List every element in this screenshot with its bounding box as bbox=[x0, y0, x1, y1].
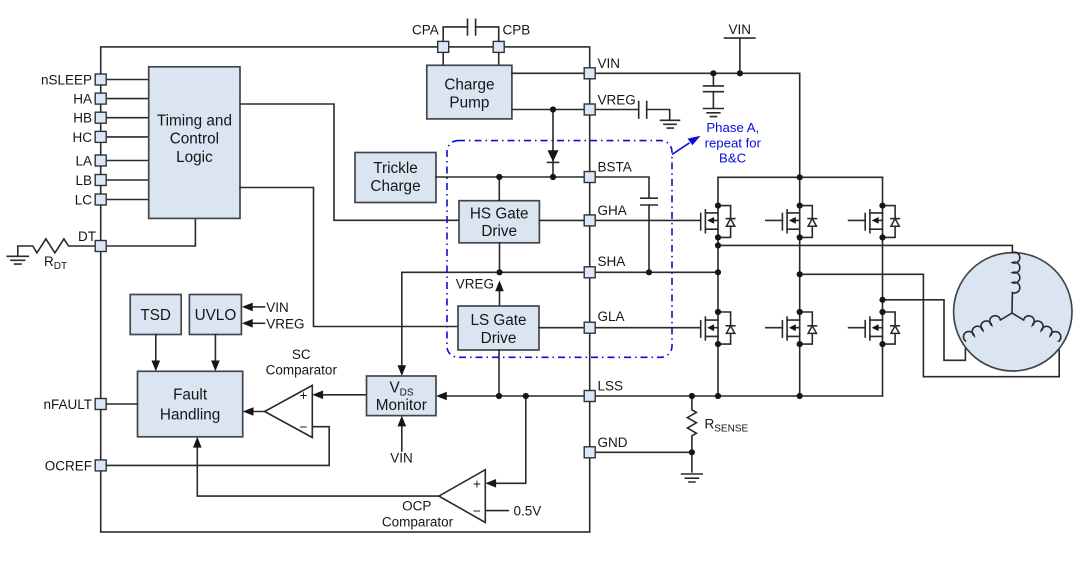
wire OCREF to SC comparator minus input bbox=[106, 427, 329, 466]
pin SHA bbox=[584, 267, 595, 278]
svg-text:GLA: GLA bbox=[598, 309, 625, 324]
wire VIN into UVLO bbox=[242, 300, 289, 315]
pin CPB bbox=[493, 41, 504, 52]
svg-text:LA: LA bbox=[75, 154, 92, 169]
diode VREG to BSTA bootstrap bbox=[548, 110, 559, 178]
svg-text:VIN: VIN bbox=[390, 451, 413, 466]
svg-text:OCP: OCP bbox=[402, 498, 431, 513]
wire GHA net bbox=[539, 219, 700, 221]
svg-text:VIN: VIN bbox=[598, 56, 621, 71]
svg-text:Phase A,: Phase A, bbox=[706, 120, 759, 135]
pin GHA bbox=[584, 215, 595, 226]
wire phase C to motor bbox=[883, 300, 966, 361]
wire CPA to charge pump bbox=[442, 47, 444, 65]
svg-text:GND: GND bbox=[598, 435, 628, 450]
svg-text:Charge: Charge bbox=[444, 77, 494, 94]
block VDS Monitor bbox=[367, 376, 437, 416]
wire LS gate drive to LSS bbox=[498, 350, 500, 396]
svg-text:Timing and: Timing and bbox=[157, 113, 232, 130]
svg-text:SHA: SHA bbox=[598, 254, 626, 269]
svg-text:SC: SC bbox=[292, 347, 311, 362]
op-amp SC comparator bbox=[265, 347, 338, 438]
transistor Q5 low-side B bbox=[766, 312, 817, 344]
wire timing to LS gate drive bbox=[240, 188, 458, 327]
svg-text:LC: LC bbox=[75, 193, 93, 208]
block UVLO bbox=[189, 295, 241, 335]
dashed box Phase A repeat block bbox=[447, 141, 672, 358]
svg-text:repeat for: repeat for bbox=[705, 135, 762, 150]
svg-text:UVLO: UVLO bbox=[195, 307, 237, 324]
capacitor CPA-CPB flying cap bbox=[443, 19, 499, 47]
junction dots phase nodes bbox=[715, 242, 886, 303]
ground RSENSE bbox=[682, 474, 703, 482]
svg-text:0.5V: 0.5V bbox=[514, 504, 542, 519]
wire bridge top VIN rail bbox=[718, 176, 883, 178]
wire GLA net bbox=[539, 327, 701, 329]
svg-text:RSENSE: RSENSE bbox=[705, 417, 749, 435]
pin BSTA bbox=[584, 172, 595, 183]
wire nSLEEP bbox=[106, 79, 149, 81]
pin LB bbox=[95, 175, 106, 186]
pin LC bbox=[95, 194, 106, 205]
svg-text:HC: HC bbox=[73, 130, 93, 145]
wire LSS into VDS monitor right bbox=[436, 392, 584, 401]
capacitor VREG decoupling bbox=[595, 102, 670, 120]
svg-text:Monitor: Monitor bbox=[376, 397, 427, 414]
wire charge pump to VIN pin bbox=[512, 72, 584, 74]
svg-text:HA: HA bbox=[73, 92, 92, 107]
resistor RDT bbox=[18, 239, 95, 272]
wire timing to HS gate drive bbox=[240, 104, 459, 220]
ground RDT bbox=[7, 256, 28, 264]
pin GND bbox=[584, 447, 595, 458]
svg-text:OCREF: OCREF bbox=[45, 458, 92, 473]
wire LA bbox=[106, 160, 149, 162]
op-amp OCP comparator bbox=[382, 470, 485, 530]
svg-text:Charge: Charge bbox=[370, 178, 420, 195]
wire UVLO to fault handling bbox=[211, 335, 220, 372]
annotation arrow Phase A bbox=[672, 136, 701, 155]
svg-text:HS Gate: HS Gate bbox=[470, 206, 529, 223]
svg-text:CPB: CPB bbox=[503, 23, 531, 38]
svg-text:Comparator: Comparator bbox=[382, 514, 454, 529]
wire 0.5V reference to OCP minus input bbox=[485, 504, 541, 519]
wire LSS external rail bbox=[595, 395, 882, 397]
junction dots supply nets bbox=[496, 70, 803, 180]
svg-text:Logic: Logic bbox=[176, 149, 213, 166]
capacitor VIN bulk bbox=[704, 73, 724, 107]
wire TSD to fault handling bbox=[152, 335, 161, 372]
svg-text:VIN: VIN bbox=[728, 22, 751, 37]
wire LC bbox=[106, 199, 149, 201]
transistor Q4 low-side A bbox=[701, 312, 735, 344]
wire HC bbox=[106, 136, 149, 138]
wire SC comparator output to fault handling bbox=[243, 407, 265, 416]
wire CPB to charge pump bbox=[498, 47, 500, 65]
svg-text:Trickle: Trickle bbox=[373, 160, 417, 177]
transistor Q2 high-side B bbox=[766, 206, 817, 238]
ground VREG cap bbox=[661, 120, 680, 128]
wire LSS to OCP comparator plus input bbox=[485, 396, 526, 488]
inductor motor winding top bbox=[1012, 252, 1020, 313]
svg-text:BSTA: BSTA bbox=[598, 160, 632, 175]
block TSD bbox=[130, 295, 181, 335]
svg-text:Pump: Pump bbox=[449, 95, 489, 112]
pin HA bbox=[95, 93, 106, 104]
svg-text:LSS: LSS bbox=[598, 379, 624, 394]
svg-text:Control: Control bbox=[170, 131, 219, 148]
wire half-bridge C column bbox=[882, 177, 884, 396]
svg-text:Comparator: Comparator bbox=[266, 362, 338, 377]
wire HS gate drive to BSTA bbox=[498, 177, 500, 201]
block LS Gate Drive bbox=[458, 306, 539, 350]
transistor Q3 high-side C bbox=[849, 206, 900, 238]
wire GND net bbox=[595, 451, 692, 453]
block Trickle Charge bbox=[355, 153, 436, 203]
wire VIN external rail bbox=[595, 73, 800, 177]
svg-text:Drive: Drive bbox=[481, 223, 517, 240]
pin DT bbox=[95, 241, 106, 252]
inductor motor winding left bbox=[963, 313, 1012, 341]
svg-text:nSLEEP: nSLEEP bbox=[41, 73, 92, 88]
block Fault Handling bbox=[138, 371, 243, 437]
svg-text:DT: DT bbox=[78, 229, 96, 244]
wire phase B to motor bbox=[800, 274, 1059, 376]
wire phase A to motor bbox=[718, 245, 1012, 252]
wire nFAULT bbox=[106, 403, 137, 405]
wire HA bbox=[106, 98, 149, 100]
pin VIN bbox=[584, 68, 595, 79]
pin CPA bbox=[438, 41, 449, 52]
resistor RSENSE bbox=[687, 396, 748, 472]
svg-text:CPA: CPA bbox=[412, 23, 439, 38]
pin VREG bbox=[584, 104, 595, 115]
svg-text:−: − bbox=[473, 504, 481, 519]
motor M bbox=[954, 253, 1072, 371]
power VIN bar symbol bbox=[725, 22, 755, 73]
pin GLA bbox=[584, 322, 595, 333]
wire half-bridge B column bbox=[799, 177, 801, 396]
inductor motor winding right bbox=[1012, 313, 1061, 341]
capacitor bootstrap BSTA-SHA bbox=[595, 177, 657, 272]
pin HC bbox=[95, 131, 106, 142]
transistor Q1 high-side A bbox=[701, 206, 735, 238]
wire HS gate drive to SHA bbox=[499, 243, 501, 272]
wire IC package boundary bbox=[101, 47, 590, 532]
wire half-bridge A column bbox=[717, 177, 719, 396]
svg-text:+: + bbox=[300, 388, 308, 403]
transistor Q6 low-side C bbox=[849, 312, 900, 344]
pin HB bbox=[95, 112, 106, 123]
block Charge Pump bbox=[427, 65, 512, 119]
svg-text:nFAULT: nFAULT bbox=[43, 397, 92, 412]
wire LB bbox=[106, 179, 149, 181]
wire SHA net bbox=[402, 271, 718, 273]
svg-text:B&C: B&C bbox=[719, 150, 747, 165]
svg-text:VREG: VREG bbox=[598, 93, 636, 108]
pin nSLEEP bbox=[95, 74, 106, 85]
wire charge pump to VREG pin bbox=[512, 109, 584, 111]
junction dots SHA net bbox=[496, 269, 721, 275]
svg-text:HB: HB bbox=[73, 111, 92, 126]
svg-text:LB: LB bbox=[75, 173, 92, 188]
pin nFAULT bbox=[95, 399, 106, 410]
svg-text:VREG: VREG bbox=[266, 316, 304, 331]
svg-text:Fault: Fault bbox=[173, 387, 208, 404]
wire DT bbox=[106, 218, 195, 246]
svg-text:VREG: VREG bbox=[456, 277, 494, 292]
wire HB bbox=[106, 117, 149, 119]
svg-text:VIN: VIN bbox=[266, 300, 289, 315]
svg-text:RDT: RDT bbox=[44, 254, 67, 272]
pin LA bbox=[95, 155, 106, 166]
junction dots body diodes bbox=[715, 203, 886, 348]
block HS Gate Drive bbox=[459, 201, 539, 243]
svg-text:Drive: Drive bbox=[481, 330, 517, 347]
svg-text:LS Gate: LS Gate bbox=[470, 312, 526, 329]
wire VREG into UVLO bbox=[242, 316, 305, 331]
svg-text:+: + bbox=[473, 476, 481, 491]
annotation text Phase A repeat for B&C bbox=[705, 120, 762, 165]
wire VREG arrow into LS gate drive bbox=[456, 277, 504, 307]
block Timing and Control Logic bbox=[149, 67, 240, 219]
pin OCREF bbox=[95, 460, 106, 471]
svg-text:Handling: Handling bbox=[160, 407, 220, 424]
ground VIN cap bbox=[704, 109, 724, 117]
svg-text:TSD: TSD bbox=[140, 307, 171, 324]
junction dots LSS and GND bbox=[496, 393, 803, 456]
wire VDS monitor to SC comparator plus input bbox=[312, 391, 366, 400]
wire SHA sense into VDS monitor top bbox=[398, 272, 407, 376]
svg-text:GHA: GHA bbox=[598, 203, 627, 218]
pin LSS bbox=[584, 391, 595, 402]
svg-text:−: − bbox=[300, 420, 308, 435]
wire VIN into VDS monitor bottom bbox=[390, 416, 413, 466]
wire OCP comparator output to fault handling bbox=[193, 437, 439, 496]
wire BSTA rail bbox=[436, 176, 584, 178]
